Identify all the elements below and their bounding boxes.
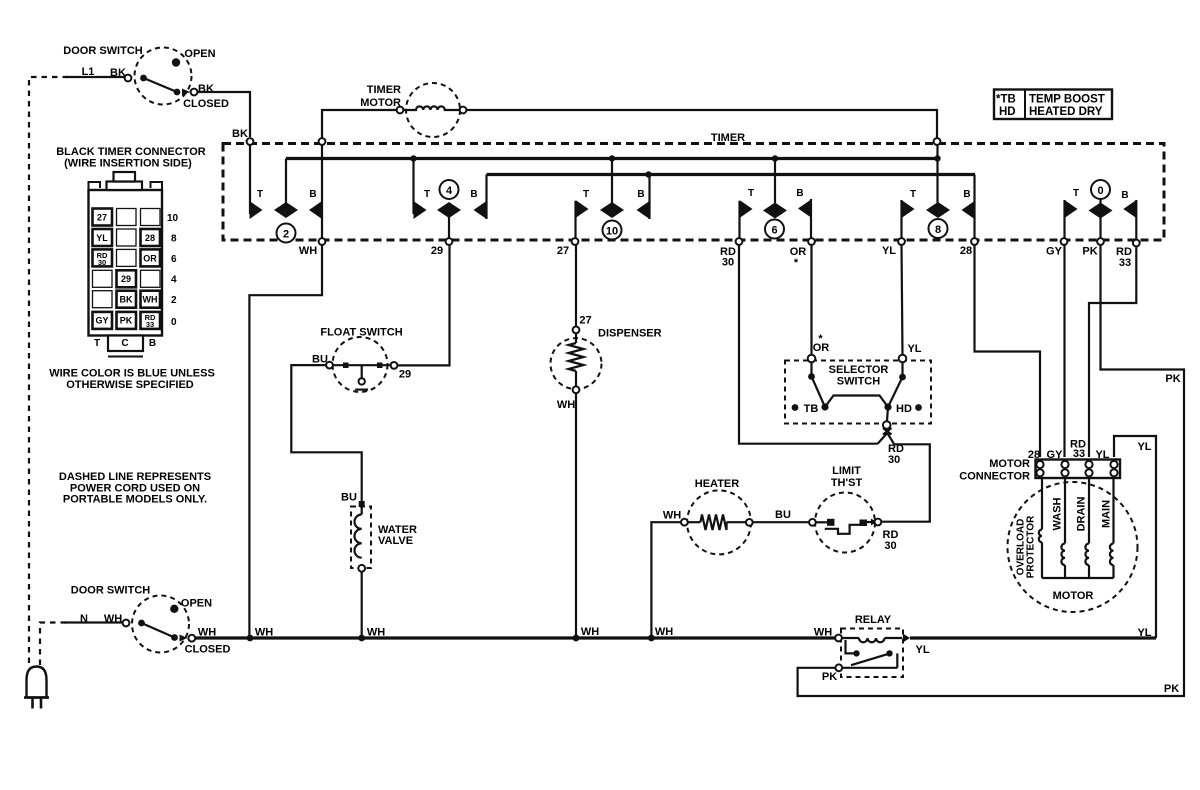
- wire RD33 timer to motor connector: [1089, 247, 1136, 458]
- svg-text:B: B: [637, 189, 644, 200]
- svg-text:33: 33: [1073, 448, 1085, 460]
- bus junction dots: [247, 635, 254, 642]
- power plug P1: [24, 667, 49, 709]
- svg-text:*: *: [818, 333, 823, 345]
- wire water valve to bottom bus: [361, 572, 363, 637]
- svg-text:TB: TB: [804, 403, 819, 415]
- wire PK timer to relay: [798, 245, 1184, 696]
- wire YL motor connector to bus: [1114, 436, 1156, 638]
- motor bottom rail: [1042, 577, 1114, 579]
- svg-text:DOOR SWITCH: DOOR SWITCH: [63, 45, 142, 57]
- svg-text:PK: PK: [822, 671, 837, 683]
- timer top terminals: [247, 138, 254, 145]
- cam switch 0: [1065, 180, 1137, 240]
- svg-text:YL: YL: [916, 644, 930, 656]
- wire power cord L1 (dashed): [29, 77, 68, 666]
- svg-text:WH: WH: [663, 510, 681, 522]
- svg-text:B: B: [309, 189, 316, 200]
- svg-text:T: T: [424, 189, 430, 200]
- svg-text:BK: BK: [120, 295, 133, 305]
- svg-text:HEATED DRY: HEATED DRY: [1029, 106, 1103, 118]
- svg-text:TIMER: TIMER: [711, 132, 745, 144]
- wire BU float switch to water valve: [291, 365, 361, 501]
- cam 8 bottom terminals YL / 28: [898, 238, 905, 245]
- wire timer motor left to timer box: [322, 110, 397, 138]
- svg-text:PK: PK: [1165, 373, 1180, 385]
- svg-text:33: 33: [1119, 257, 1131, 269]
- wire RD30 cam6 to selector output: [739, 245, 878, 444]
- svg-text:T: T: [257, 189, 263, 200]
- svg-text:B: B: [470, 189, 477, 200]
- heater R2: [681, 490, 753, 554]
- svg-text:BK: BK: [110, 67, 126, 79]
- svg-text:*TB: *TB: [996, 94, 1016, 106]
- wire 29 float switch to timer: [398, 245, 450, 365]
- wire N to door switch S2: [64, 621, 123, 623]
- cam 6 bottom terminals RD30 / OR: [736, 238, 743, 245]
- svg-text:SELECTOR: SELECTOR: [829, 364, 889, 376]
- svg-text:PK: PK: [1164, 683, 1179, 695]
- cam switch 4: [414, 159, 487, 239]
- svg-text:PK: PK: [1082, 246, 1097, 258]
- svg-text:0: 0: [1097, 185, 1103, 197]
- motor winding DRAIN: [1085, 478, 1089, 578]
- svg-text:OPEN: OPEN: [181, 598, 212, 610]
- cam 0 bottom terminals GY / PK / RD33: [1061, 238, 1068, 245]
- svg-text:HEATER: HEATER: [695, 478, 739, 490]
- float switch S3: [326, 337, 397, 392]
- wire power cord N (dashed): [40, 623, 66, 667]
- svg-text:OR: OR: [143, 254, 157, 264]
- svg-text:DISPENSER: DISPENSER: [598, 328, 662, 340]
- connector J1 grid cells: [93, 209, 161, 329]
- wire timer motor right to timer box: [467, 110, 938, 138]
- selector switch S4 contacts: [792, 355, 922, 429]
- svg-text:YL: YL: [1137, 441, 1151, 453]
- svg-text:DRAIN: DRAIN: [1076, 497, 1088, 532]
- svg-text:29: 29: [121, 274, 131, 284]
- svg-text:GY: GY: [95, 316, 108, 326]
- svg-text:B: B: [796, 188, 803, 199]
- svg-text:B: B: [149, 338, 156, 349]
- relay K1 coil: [835, 634, 910, 643]
- svg-text:30: 30: [722, 257, 734, 269]
- svg-text:C: C: [121, 338, 128, 349]
- svg-text:WH: WH: [557, 399, 575, 411]
- svg-text:OTHERWISE SPECIFIED: OTHERWISE SPECIFIED: [66, 379, 194, 391]
- svg-text:CLOSED: CLOSED: [185, 644, 231, 656]
- svg-text:B: B: [1121, 190, 1128, 201]
- selector switch S4 box: [785, 361, 931, 424]
- cam switch 10: [576, 159, 650, 240]
- cam 4 bottom terminal 29: [446, 238, 453, 245]
- svg-text:WH: WH: [655, 626, 673, 638]
- svg-text:WASH: WASH: [1052, 497, 1064, 530]
- svg-text:YL: YL: [1137, 627, 1151, 639]
- motor winding MAIN: [1110, 478, 1114, 578]
- svg-text:0: 0: [171, 317, 177, 328]
- svg-text:(WIRE INSERTION SIDE): (WIRE INSERTION SIDE): [64, 158, 192, 170]
- timer box (dashed): [223, 144, 1164, 241]
- svg-text:28: 28: [145, 233, 155, 243]
- wire dispenser to bottom bus: [575, 393, 577, 636]
- svg-text:MOTOR: MOTOR: [989, 458, 1030, 470]
- svg-text:6: 6: [171, 254, 177, 265]
- svg-text:PORTABLE MODELS ONLY.: PORTABLE MODELS ONLY.: [63, 494, 207, 506]
- svg-text:WH: WH: [143, 295, 158, 305]
- svg-text:POWER CORD USED ON: POWER CORD USED ON: [70, 482, 200, 494]
- wire 28 timer to motor connector: [975, 245, 1041, 457]
- svg-text:10: 10: [606, 226, 618, 238]
- svg-text:30: 30: [98, 258, 106, 267]
- svg-text:10: 10: [167, 213, 179, 224]
- svg-text:T: T: [748, 188, 754, 199]
- svg-text:BU: BU: [341, 492, 357, 504]
- svg-text:HD: HD: [999, 106, 1016, 118]
- motor winding WASH: [1061, 478, 1065, 578]
- wire BU heater to limit thermostat: [753, 521, 809, 523]
- wire WH heater to bottom bus: [651, 522, 681, 636]
- svg-text:30: 30: [888, 454, 900, 466]
- overload protector: [1039, 478, 1042, 578]
- svg-text:T: T: [910, 189, 916, 200]
- svg-text:WH: WH: [299, 245, 317, 257]
- node RD30 selector output X: [878, 428, 895, 444]
- cam switch 2: [250, 145, 323, 243]
- svg-text:CONNECTOR: CONNECTOR: [959, 471, 1030, 483]
- svg-text:27: 27: [97, 213, 107, 223]
- svg-text:WIRE COLOR IS BLUE UNLESS: WIRE COLOR IS BLUE UNLESS: [49, 368, 215, 380]
- timer internal bus 1: [286, 157, 938, 160]
- svg-text:28: 28: [960, 245, 972, 257]
- svg-text:MAIN: MAIN: [1101, 500, 1113, 528]
- svg-text:L1: L1: [82, 66, 95, 78]
- svg-text:LIMIT: LIMIT: [832, 465, 861, 477]
- svg-text:BK: BK: [232, 128, 248, 140]
- svg-text:4: 4: [171, 275, 177, 286]
- svg-text:WH: WH: [255, 627, 273, 639]
- svg-text:DOOR SWITCH: DOOR SWITCH: [71, 585, 150, 597]
- svg-text:T: T: [583, 189, 589, 200]
- wire RD30 selector output to limit thermostat: [882, 444, 930, 521]
- cam switch 8: [902, 145, 975, 238]
- motor connector J2: [1036, 460, 1121, 479]
- wire BK from S1 to timer: [198, 92, 251, 137]
- cam 2 bottom terminal WH: [319, 238, 326, 245]
- legend box TB/HD: [994, 90, 1112, 120]
- svg-text:PK: PK: [120, 316, 133, 326]
- junction dots bus1: [410, 155, 416, 161]
- svg-text:B: B: [963, 189, 970, 200]
- wire GY timer to motor connector: [1063, 245, 1065, 457]
- svg-text:VALVE: VALVE: [378, 535, 413, 547]
- wire 27 timer to dispenser: [575, 245, 577, 327]
- svg-text:BLACK TIMER CONNECTOR: BLACK TIMER CONNECTOR: [56, 146, 206, 158]
- svg-text:MOTOR: MOTOR: [1053, 590, 1094, 602]
- svg-text:HD: HD: [896, 403, 912, 415]
- svg-text:8: 8: [171, 234, 177, 245]
- bottom bus YL (right of relay): [910, 636, 1156, 639]
- svg-text:YL: YL: [907, 343, 921, 355]
- wire YL timer to selector switch: [902, 245, 903, 355]
- svg-text:T: T: [94, 338, 100, 349]
- limit thermostat S5: [809, 493, 881, 553]
- svg-text:2: 2: [283, 229, 289, 241]
- svg-text:DASHED LINE REPRESENTS: DASHED LINE REPRESENTS: [59, 471, 211, 483]
- wire L1 to door switch S1: [66, 76, 125, 78]
- svg-text:29: 29: [431, 245, 443, 257]
- svg-text:CLOSED: CLOSED: [183, 98, 229, 110]
- connector J1 column labels T C B: [94, 338, 156, 349]
- svg-text:29: 29: [399, 368, 411, 380]
- svg-text:TH'ST: TH'ST: [831, 477, 863, 489]
- bottom bus WH (left of relay): [195, 636, 835, 639]
- svg-text:TEMP BOOST: TEMP BOOST: [1029, 94, 1105, 106]
- svg-text:YL: YL: [882, 245, 896, 257]
- connector J1 pin row labels: [167, 213, 179, 328]
- svg-text:BU: BU: [775, 509, 791, 521]
- svg-text:6: 6: [771, 225, 777, 237]
- svg-text:27: 27: [579, 315, 591, 327]
- svg-text:27: 27: [557, 245, 569, 257]
- svg-text:TIMER: TIMER: [367, 84, 401, 96]
- svg-text:OPEN: OPEN: [184, 48, 215, 60]
- black timer connector J1 body: [89, 172, 163, 357]
- svg-text:GY: GY: [1046, 246, 1063, 258]
- svg-text:RELAY: RELAY: [855, 614, 892, 626]
- svg-text:MOTOR: MOTOR: [360, 97, 401, 109]
- door switch S2 (bottom): [123, 596, 196, 653]
- svg-text:2: 2: [171, 295, 177, 306]
- relay K1 box: [841, 629, 903, 678]
- cam switch 6: [740, 159, 812, 239]
- svg-text:BK: BK: [198, 83, 214, 95]
- door switch S1 (top): [125, 48, 198, 105]
- motor M2 (dashed circle): [1008, 482, 1138, 612]
- wire WH cam2 to bottom bus: [249, 245, 322, 636]
- svg-text:4: 4: [446, 185, 453, 197]
- svg-text:WH: WH: [581, 626, 599, 638]
- dispenser R1: [551, 327, 602, 394]
- svg-text:PROTECTOR: PROTECTOR: [1026, 515, 1037, 578]
- svg-text:YL: YL: [96, 233, 108, 243]
- svg-text:WH: WH: [367, 627, 385, 639]
- svg-text:33: 33: [146, 320, 154, 329]
- svg-text:30: 30: [884, 540, 896, 552]
- junction dot bus2: [645, 171, 651, 177]
- svg-text:SWITCH: SWITCH: [837, 376, 880, 388]
- svg-text:T: T: [1073, 188, 1079, 199]
- water valve L1 coil: [351, 501, 371, 572]
- wire OR timer to selector switch: [810, 245, 812, 355]
- svg-text:*: *: [794, 257, 799, 269]
- svg-text:BU: BU: [312, 354, 328, 366]
- timer internal bus 2: [487, 173, 976, 176]
- timer motor M1: [397, 83, 467, 137]
- svg-text:8: 8: [935, 224, 941, 236]
- relay K1 switch: [835, 640, 897, 671]
- cam 10 bottom terminal 27: [572, 238, 579, 245]
